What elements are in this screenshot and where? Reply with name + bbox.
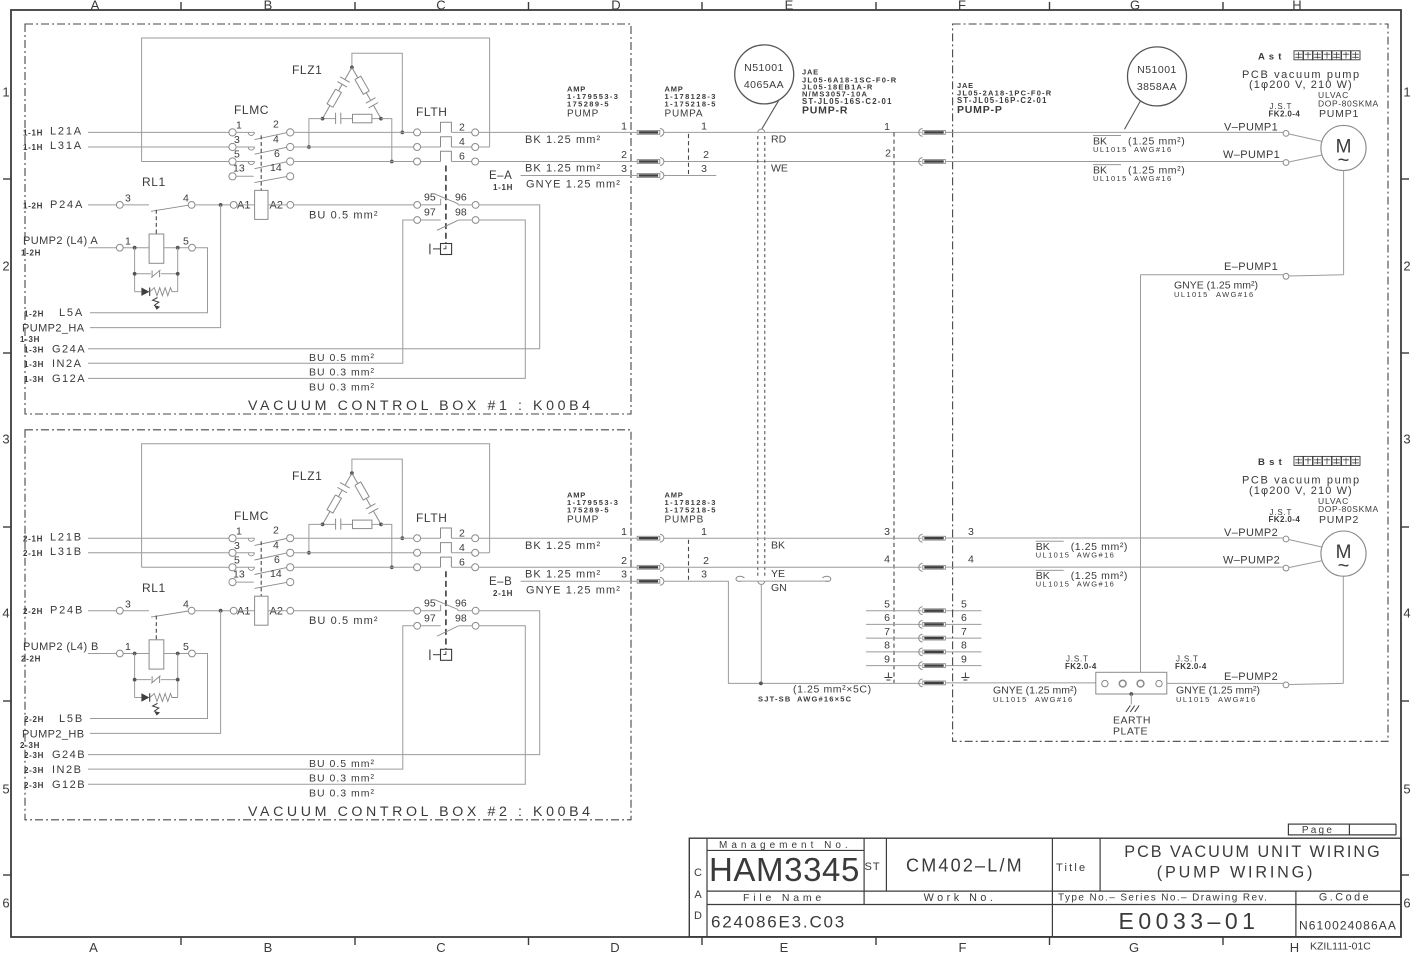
- svg-text:1-1H: 1-1H: [23, 143, 43, 152]
- FLTH trip dashed link: [445, 166, 447, 244]
- FLZ1 right corner drop to row3: [381, 524, 392, 567]
- frame row ticks left/right: [3, 178, 11, 180]
- FLZ1 left leg resistor: [327, 89, 341, 107]
- svg-text:1: 1: [236, 120, 242, 132]
- cable drain wire to earth junction: [760, 585, 762, 684]
- wire PUMPA pin2 to PUMP-R: [664, 161, 922, 163]
- svg-text:PUMP-P: PUMP-P: [957, 104, 1003, 116]
- svg-text:F: F: [959, 940, 967, 955]
- svg-text:D: D: [611, 0, 620, 13]
- wire PUMPA pin3 stub: [664, 175, 716, 177]
- svg-text:6: 6: [2, 896, 9, 911]
- svg-text:3: 3: [125, 193, 131, 205]
- wire FLMC to FLTH row2 box #2: [294, 552, 414, 554]
- wire FLMC to FLTH row1 box #1: [294, 131, 414, 133]
- label BK wire pump2 row2: [1036, 569, 1064, 571]
- svg-text:RL1: RL1: [142, 175, 166, 189]
- svg-text:AWG#16: AWG#16: [1218, 695, 1257, 704]
- svg-text:E: E: [780, 940, 789, 955]
- svg-text:E: E: [785, 0, 794, 13]
- svg-text:9: 9: [884, 653, 890, 665]
- svg-text:ST: ST: [865, 861, 881, 873]
- wire RL1 to A1 box #2: [195, 610, 230, 612]
- svg-text:97: 97: [424, 613, 436, 625]
- wire FLTH out row3 to pin2 box #2: [479, 566, 637, 568]
- earth symbol right: [964, 673, 966, 678]
- svg-text:1-2H: 1-2H: [23, 201, 43, 210]
- svg-text:98: 98: [455, 207, 467, 219]
- svg-text:4: 4: [273, 539, 279, 551]
- enclosure outline box #1: [142, 38, 490, 162]
- wire PUMPB pin3 earth run: [664, 581, 922, 683]
- svg-text:A: A: [91, 0, 100, 13]
- svg-text:95: 95: [424, 597, 436, 609]
- svg-text:13: 13: [233, 568, 245, 580]
- svg-text:2-2H: 2-2H: [24, 715, 44, 724]
- RL1 coil box #1: [149, 234, 164, 263]
- svg-text:~: ~: [1338, 555, 1350, 577]
- svg-text:HAM3345: HAM3345: [709, 851, 860, 888]
- wire FLMC to FLTH row2 box #1: [294, 146, 414, 148]
- svg-text:5: 5: [2, 782, 9, 797]
- wire PUMPA pin1 to PUMP-R: [664, 131, 922, 133]
- svg-text:1: 1: [701, 120, 707, 132]
- svg-text:4: 4: [183, 193, 189, 205]
- svg-text:1-175218-5: 1-175218-5: [665, 505, 717, 514]
- svg-text:YE: YE: [771, 568, 785, 580]
- connector PUMPA dashed boundary: [688, 134, 690, 174]
- svg-text:FLMC: FLMC: [234, 103, 269, 117]
- svg-text:PUMP: PUMP: [567, 514, 599, 525]
- svg-text:C: C: [436, 0, 445, 13]
- FLTH pole 4: [414, 144, 421, 151]
- FLZ1 bottom capacitor: [323, 523, 336, 525]
- svg-text:DOP-80SKMA: DOP-80SKMA: [1318, 98, 1379, 108]
- svg-text:4: 4: [183, 598, 189, 610]
- svg-text:2-3H: 2-3H: [20, 741, 40, 750]
- svg-text:1-3H: 1-3H: [24, 345, 44, 354]
- svg-text:4: 4: [884, 553, 890, 565]
- svg-text:5: 5: [884, 599, 890, 611]
- svg-text:1: 1: [1403, 85, 1410, 100]
- svg-text:5: 5: [183, 641, 189, 653]
- svg-text:6: 6: [961, 612, 967, 624]
- cable pair boundary dashed: [757, 136, 759, 578]
- svg-text:L31A: L31A: [50, 140, 83, 152]
- svg-text:AWG#16: AWG#16: [1077, 550, 1116, 559]
- svg-text:1-3H: 1-3H: [24, 375, 44, 384]
- svg-text:Management No.: Management No.: [719, 840, 852, 851]
- RL1 contact actuator dashed link: [155, 210, 157, 234]
- svg-text:96: 96: [455, 192, 467, 204]
- svg-text:BU 0.5 mm²: BU 0.5 mm²: [309, 209, 379, 221]
- wire row3 from enclosure box #1: [142, 161, 229, 163]
- svg-text:98: 98: [455, 613, 467, 625]
- FLZ1 bottom capacitor: [323, 118, 336, 120]
- svg-text:Page: Page: [1302, 825, 1334, 836]
- svg-text:C: C: [436, 940, 445, 955]
- svg-text:G24A: G24A: [52, 343, 86, 355]
- svg-text:AWG#16: AWG#16: [1035, 695, 1074, 704]
- svg-text:G12B: G12B: [52, 779, 86, 791]
- earth plate ground symbol: [1129, 692, 1133, 696]
- earth plate: [1096, 672, 1167, 694]
- svg-text:VACUUM CONTROL BOX #2 : K00B4: VACUUM CONTROL BOX #2 : K00B4: [248, 804, 594, 820]
- svg-text:L5B: L5B: [59, 713, 84, 725]
- svg-text:1: 1: [125, 235, 131, 247]
- wire PUMPB pin1 to PUMP-R: [664, 537, 922, 539]
- svg-text:A s t: A s t: [1258, 51, 1282, 62]
- svg-text:L21B: L21B: [50, 531, 83, 543]
- svg-text:W–PUMP1: W–PUMP1: [1223, 149, 1280, 161]
- svg-text:N610024086AA: N610024086AA: [1299, 919, 1397, 933]
- svg-text:4: 4: [459, 136, 465, 148]
- wire V-PUMP2: [946, 537, 1283, 539]
- svg-text:BU 0.3 mm²: BU 0.3 mm²: [309, 788, 375, 800]
- svg-text:1-2H: 1-2H: [24, 309, 44, 318]
- svg-text:96: 96: [455, 597, 467, 609]
- wire 98 down to G12A: [88, 220, 525, 378]
- RL1 surge absorber branch: [134, 248, 136, 292]
- svg-text:Type No.– Series No.– Drawing: Type No.– Series No.– Drawing Rev.: [1058, 893, 1268, 904]
- svg-text:BU 0.5 mm²: BU 0.5 mm²: [309, 615, 379, 627]
- svg-text:13: 13: [233, 163, 245, 175]
- svg-text:C: C: [694, 867, 702, 879]
- wire FLMC to FLTH row1 box #2: [294, 537, 414, 539]
- svg-text:D: D: [694, 910, 702, 922]
- svg-text:GN: GN: [771, 582, 787, 594]
- enclosure outline box #2: [142, 444, 490, 568]
- svg-text:5: 5: [961, 599, 967, 611]
- svg-text:FLTH: FLTH: [416, 105, 448, 119]
- svg-text:5: 5: [183, 235, 189, 247]
- wire E-PUMP1 earth: [1141, 274, 1284, 276]
- svg-text:BK 1.25 mm²: BK 1.25 mm²: [525, 540, 601, 552]
- svg-text:4065AA: 4065AA: [744, 79, 784, 91]
- svg-text:B: B: [264, 0, 273, 13]
- svg-text:UL1015: UL1015: [993, 695, 1028, 704]
- svg-text:PUMP-R: PUMP-R: [802, 105, 848, 117]
- svg-text:L21A: L21A: [50, 126, 83, 138]
- svg-text:6: 6: [459, 151, 465, 163]
- svg-text:BK 1.25 mm²: BK 1.25 mm²: [525, 569, 601, 581]
- svg-text:G.Code: G.Code: [1319, 892, 1371, 904]
- svg-text:97: 97: [424, 207, 436, 219]
- svg-text:6: 6: [274, 148, 280, 160]
- wire GNYE pin3 box #1: [521, 175, 638, 177]
- svg-text:E–PUMP1: E–PUMP1: [1224, 261, 1278, 273]
- wire PUMP-R to PUMP-P unit1 row2: [946, 161, 953, 163]
- svg-text:PUMPA: PUMPA: [665, 109, 704, 120]
- svg-text:FK2.0-4: FK2.0-4: [1269, 515, 1301, 524]
- motor M2: [1321, 531, 1366, 576]
- earth pin row: [923, 681, 946, 685]
- RL1 coil box #2: [149, 640, 164, 669]
- svg-text:~: ~: [1338, 150, 1350, 172]
- svg-text:PUMP: PUMP: [567, 109, 599, 120]
- balloon N51001 4065AA: [735, 45, 794, 104]
- wire A2 to 95 box #2: [294, 610, 414, 612]
- RL1 LED + resistor branch: [135, 697, 142, 699]
- svg-text:A: A: [89, 940, 98, 955]
- svg-text:UL1015: UL1015: [1174, 290, 1209, 299]
- wire 98 down to G12B: [88, 626, 525, 784]
- svg-text:AWG#16: AWG#16: [1134, 145, 1173, 154]
- FLZ1 left leg capacitor: [345, 473, 352, 485]
- svg-text:8: 8: [961, 640, 967, 652]
- svg-text:SJT-SB: SJT-SB: [758, 695, 791, 704]
- wire GNYE pin3 box #2: [521, 580, 638, 582]
- wire V-PUMP1: [946, 131, 1283, 133]
- svg-text:GNYE 1.25 mm²: GNYE 1.25 mm²: [526, 584, 621, 596]
- balloon N51001 3858AA: [1128, 47, 1187, 106]
- svg-text:Work No.: Work No.: [924, 892, 997, 904]
- svg-text:2-1H: 2-1H: [23, 549, 43, 558]
- svg-text:PUMP1: PUMP1: [1319, 108, 1359, 120]
- svg-text:2: 2: [621, 555, 627, 567]
- wire A2 to 95 box #1: [294, 204, 414, 206]
- wire W-PUMP1: [946, 161, 1283, 163]
- svg-text:7: 7: [961, 626, 967, 638]
- svg-text:DOP-80SKMA: DOP-80SKMA: [1318, 504, 1379, 514]
- svg-text:WE: WE: [771, 163, 788, 175]
- vacuum control box #1 dash-dot boundary: [25, 24, 631, 414]
- svg-text:E0033–01: E0033–01: [1119, 908, 1260, 934]
- wire row3 from enclosure box #2: [142, 566, 229, 568]
- wire E-PUMP2 earth: [1167, 682, 1283, 684]
- FLTH reset symbol: [429, 244, 431, 255]
- svg-text:BK 1.25 mm²: BK 1.25 mm²: [525, 134, 601, 146]
- wire 96 down to G24A: [88, 205, 540, 349]
- svg-text:175289-5: 175289-5: [567, 505, 610, 514]
- svg-text:2-2H: 2-2H: [23, 607, 43, 616]
- svg-text:1: 1: [701, 526, 707, 538]
- svg-text:1: 1: [884, 121, 890, 133]
- unused YE wire with curled ends: [736, 576, 744, 581]
- svg-text:UL1015: UL1015: [1036, 580, 1071, 589]
- svg-text:3: 3: [621, 569, 627, 581]
- svg-text:1-3H: 1-3H: [24, 360, 44, 369]
- svg-text:AWG#16×5C: AWG#16×5C: [797, 695, 852, 704]
- label BK wire pump1 row1: [1093, 135, 1121, 137]
- svg-text:RL1: RL1: [142, 581, 166, 595]
- connector PUMPB dashed boundary: [688, 540, 690, 580]
- FLZ1 right leg capacitor: [366, 498, 370, 506]
- FLZ1 right corner drop to row3: [381, 119, 392, 162]
- svg-text:GNYE 1.25 mm²: GNYE 1.25 mm²: [526, 179, 621, 191]
- FLMC actuator dashed link: [260, 541, 262, 596]
- svg-text:A: A: [694, 889, 702, 901]
- FLZ1 apex feed wire: [352, 459, 402, 538]
- LED indicator arrow: [153, 703, 159, 711]
- svg-text:3: 3: [701, 163, 707, 175]
- wire 97 down to IN2B: [88, 626, 414, 769]
- svg-text:PUMP2 (L4) A: PUMP2 (L4) A: [23, 235, 98, 247]
- svg-text:File Name: File Name: [743, 892, 825, 904]
- svg-text:PUMP2_HB: PUMP2_HB: [22, 728, 85, 740]
- svg-text:E–PUMP2: E–PUMP2: [1224, 671, 1278, 683]
- svg-text:4: 4: [1403, 606, 1410, 621]
- svg-text:A1: A1: [237, 200, 250, 212]
- wire 97 down to IN2A: [88, 220, 414, 363]
- svg-text:BU 0.5 mm²: BU 0.5 mm²: [309, 758, 375, 770]
- FLZ1 bottom resistor: [353, 520, 372, 529]
- FLZ1 right leg capacitor: [366, 93, 370, 101]
- svg-text:2: 2: [1403, 259, 1410, 274]
- svg-text:FLTH: FLTH: [416, 511, 448, 525]
- FLTH pole 6: [414, 158, 421, 165]
- title block CAD cell: [706, 838, 708, 937]
- FLZ1 right leg resistor: [352, 67, 358, 77]
- svg-text:624086E3.C03: 624086E3.C03: [711, 913, 846, 932]
- svg-text:UL1015: UL1015: [1036, 550, 1071, 559]
- svg-text:KZIL111-01C: KZIL111-01C: [1310, 941, 1371, 953]
- connector PUMP-R dashed boundary: [893, 132, 895, 683]
- FLTH pole 4: [414, 549, 421, 556]
- svg-text:VACUUM CONTROL BOX #1 : K00B4: VACUUM CONTROL BOX #1 : K00B4: [248, 398, 594, 414]
- FLZ1 left corner drop to row2: [309, 119, 323, 147]
- svg-text:PUMP2 (L4) B: PUMP2 (L4) B: [23, 641, 99, 653]
- svg-text:1: 1: [621, 526, 627, 538]
- motor M1: [1321, 125, 1366, 170]
- svg-text:V–PUMP2: V–PUMP2: [1224, 527, 1278, 539]
- svg-text:P24A: P24A: [50, 199, 84, 211]
- svg-text:AWG#16: AWG#16: [1077, 580, 1116, 589]
- svg-text:B: B: [264, 940, 273, 955]
- svg-text:5: 5: [1403, 782, 1410, 797]
- svg-text:AWG#16: AWG#16: [1216, 290, 1255, 299]
- svg-text:3: 3: [125, 598, 131, 610]
- svg-text:2-3H: 2-3H: [24, 751, 44, 760]
- svg-text:6: 6: [1403, 896, 1410, 911]
- svg-text:H: H: [1292, 0, 1301, 13]
- FLZ1 left leg resistor: [327, 495, 341, 513]
- vacuum control box #2 dash-dot boundary: [25, 430, 631, 820]
- svg-text:AWG#16: AWG#16: [1134, 174, 1173, 183]
- svg-text:G: G: [1130, 0, 1140, 13]
- svg-text:1-1H: 1-1H: [493, 183, 513, 192]
- svg-text:B s t: B s t: [1258, 457, 1283, 468]
- svg-text:2: 2: [459, 122, 465, 134]
- svg-text:UL1015: UL1015: [1176, 695, 1211, 704]
- svg-text:BU 0.3 mm²: BU 0.3 mm²: [309, 367, 375, 379]
- FLZ1 right leg resistor: [352, 473, 358, 483]
- FLZ1 left corner drop to row2: [309, 524, 323, 552]
- svg-text:4: 4: [459, 542, 465, 554]
- svg-text:2-2H: 2-2H: [21, 654, 41, 663]
- svg-text:BK: BK: [771, 540, 785, 552]
- svg-text:2: 2: [621, 149, 627, 161]
- svg-text:N51001: N51001: [744, 62, 784, 74]
- wire FLMC to FLTH row3 box #1: [294, 161, 414, 163]
- svg-text:2: 2: [703, 149, 709, 161]
- svg-text:4: 4: [2, 606, 9, 621]
- wire FLTH out row1 box #2: [479, 537, 637, 539]
- RL1 LED + resistor branch: [135, 291, 142, 293]
- FLZ1 left leg capacitor: [345, 67, 352, 79]
- svg-text:2: 2: [273, 524, 279, 536]
- wire 96 down to G24B: [88, 611, 540, 755]
- svg-text:175289-5: 175289-5: [567, 100, 610, 109]
- svg-text:V–PUMP1: V–PUMP1: [1224, 121, 1278, 133]
- svg-text:2: 2: [273, 119, 279, 131]
- wire FLTH out row1 box #1: [479, 131, 637, 133]
- svg-text:G24B: G24B: [52, 749, 86, 761]
- wire W-PUMP2: [946, 566, 1283, 568]
- svg-text:PLATE: PLATE: [1113, 726, 1148, 738]
- FLTH trip dashed link: [445, 571, 447, 649]
- svg-text:D: D: [610, 940, 619, 955]
- FLZ1 bottom resistor: [353, 114, 372, 123]
- svg-text:W–PUMP2: W–PUMP2: [1223, 555, 1280, 567]
- svg-text:FLZ1: FLZ1: [292, 469, 322, 483]
- svg-text:2: 2: [885, 148, 891, 160]
- svg-text:14: 14: [270, 162, 282, 174]
- svg-text:H: H: [1290, 940, 1299, 955]
- svg-text:2-1H: 2-1H: [23, 534, 43, 543]
- svg-text:1: 1: [2, 85, 9, 100]
- svg-text:G: G: [1129, 940, 1139, 955]
- svg-text:BU 0.3 mm²: BU 0.3 mm²: [309, 382, 375, 394]
- svg-text:14: 14: [270, 568, 282, 580]
- svg-text:8: 8: [884, 640, 890, 652]
- wire PUMPB pin2 to PUMP-R: [664, 566, 922, 568]
- svg-text:L5A: L5A: [59, 307, 84, 319]
- label BK wire pump2 row1: [1036, 540, 1064, 542]
- svg-text:A1: A1: [237, 605, 250, 617]
- svg-text:UL1015: UL1015: [1093, 174, 1128, 183]
- RL1 contact actuator dashed link: [155, 616, 157, 640]
- wire FLTH out row2 up over enclosure box #2: [479, 552, 490, 554]
- wire motor2 leads: [1289, 540, 1323, 548]
- svg-text:4: 4: [968, 553, 974, 565]
- svg-text:1-3H: 1-3H: [20, 335, 40, 344]
- title block outer: [689, 838, 1401, 937]
- wire FLTH out row3 to pin2 box #1: [479, 161, 637, 163]
- title block dividers: [707, 890, 1401, 892]
- svg-text:1: 1: [125, 641, 131, 653]
- svg-text:2-3H: 2-3H: [24, 781, 44, 790]
- svg-text:Title: Title: [1056, 862, 1087, 874]
- svg-text:PCB VACUUM UNIT WIRING: PCB VACUUM UNIT WIRING: [1124, 843, 1381, 861]
- svg-text:2: 2: [459, 527, 465, 539]
- svg-text:6: 6: [274, 554, 280, 566]
- svg-text:FLMC: FLMC: [234, 509, 269, 523]
- svg-text:RD: RD: [771, 134, 787, 146]
- svg-text:N51001: N51001: [1137, 64, 1177, 76]
- wire PUMP-R to PUMP-P unit1 row1: [946, 131, 953, 133]
- svg-text:G12A: G12A: [52, 373, 86, 385]
- svg-text:2-1H: 2-1H: [493, 589, 513, 598]
- svg-text:3: 3: [968, 526, 974, 538]
- svg-text:3: 3: [621, 163, 627, 175]
- LED indicator arrow: [153, 298, 159, 306]
- svg-text:1-1H: 1-1H: [23, 129, 43, 138]
- page box: [1288, 824, 1349, 835]
- FLTH pole 2: [414, 129, 421, 136]
- earth drop wire from pump1: [1140, 275, 1142, 673]
- wire motor1 leads: [1289, 134, 1323, 142]
- earth symbol left: [887, 673, 889, 678]
- wire 5 to L5B: [90, 654, 208, 719]
- svg-text:2-3H: 2-3H: [24, 766, 44, 775]
- svg-text:6: 6: [884, 612, 890, 624]
- svg-text:P24B: P24B: [50, 605, 84, 617]
- svg-text:BK 1.25 mm²: BK 1.25 mm²: [525, 163, 601, 175]
- pump unit dash-dot boundary: [953, 24, 1388, 741]
- svg-text:(PUMP WIRING): (PUMP WIRING): [1157, 864, 1315, 882]
- FLZ1 apex feed wire: [352, 53, 402, 132]
